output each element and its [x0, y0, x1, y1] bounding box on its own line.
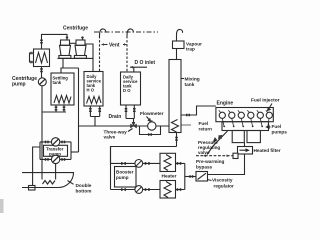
svg-text:Vent: Vent	[109, 43, 120, 49]
deck line (dash-dot)	[94, 31, 158, 33]
viscosity regulator	[196, 172, 208, 182]
vent gooseneck HO	[100, 29, 106, 36]
svg-text:Centrifuge: Centrifuge	[63, 26, 88, 32]
svg-text:H O: H O	[87, 88, 95, 93]
svg-text:Booster: Booster	[116, 170, 134, 175]
viscosity regulator label pointer	[208, 180, 212, 181]
centrifuge discharge to HO tank	[85, 44, 93, 72]
three-way valve label pointer	[128, 129, 133, 132]
svg-text:regulator: regulator	[214, 184, 234, 189]
heater bottom	[160, 181, 176, 199]
flowmeter	[148, 122, 156, 130]
HO tank outlets	[90, 106, 99, 126]
svg-text:D O inlet: D O inlet	[135, 60, 156, 66]
svg-text:Viscosity: Viscosity	[212, 178, 233, 183]
pressure valve label arrow	[213, 138, 217, 142]
vapour trap	[173, 41, 185, 49]
vent gooseneck DO	[127, 29, 133, 36]
DO inlet arrow	[130, 67, 147, 72]
mixing tank label pointer	[181, 78, 184, 80]
vent label arrows	[102, 44, 127, 46]
transfer pump circles	[51, 138, 59, 146]
svg-text:Drain: Drain	[109, 114, 122, 120]
transfer pump loop	[40, 142, 71, 160]
centrifuge pump suction line to double bottom	[41, 86, 43, 180]
svg-text:Engine: Engine	[217, 101, 234, 107]
stub on centrifuge 2	[82, 37, 84, 41]
feed pipe to centrifuge	[42, 34, 68, 49]
svg-text:valve: valve	[198, 150, 210, 155]
svg-text:pumps: pumps	[272, 130, 288, 135]
settling tank fill line	[61, 68, 79, 73]
flowmeter bypass loop	[140, 126, 161, 135]
fuel return line into mixing tank	[181, 106, 216, 115]
centrifuge 1	[59, 40, 71, 58]
svg-text:Heater: Heater	[162, 174, 177, 180]
booster pump label box	[115, 167, 137, 188]
transfer pump riser	[78, 68, 80, 152]
svg-text:Pre-warming: Pre-warming	[196, 159, 225, 164]
pre-warming bypass line (dashed)	[196, 155, 233, 157]
pipe heater to centrifuge pump	[41, 67, 43, 78]
svg-text:pump: pump	[12, 82, 26, 88]
heated filter	[238, 147, 253, 155]
fuel injector label arrow	[268, 104, 272, 111]
valve below heater	[40, 69, 43, 72]
svg-text:return: return	[199, 127, 213, 132]
heated filter down pipe	[208, 154, 245, 175]
settling tank	[51, 73, 74, 105]
fuel pump manifold	[222, 122, 269, 131]
pipe to heated filter	[244, 143, 246, 147]
settling tank drain header	[42, 111, 67, 113]
mixing tank bottom outlet	[176, 133, 178, 147]
svg-text:valve: valve	[104, 135, 116, 140]
three-way valve	[131, 122, 137, 128]
pressure regulating valve	[207, 131, 228, 155]
booster pump loop	[110, 147, 112, 190]
flowmeter label pointer	[147, 117, 151, 122]
svg-text:trap: trap	[186, 47, 195, 52]
double bottom tank	[22, 173, 74, 188]
centrifuge 2	[74, 40, 86, 58]
svg-text:pump: pump	[116, 175, 129, 180]
heater top	[160, 153, 176, 171]
fuel pumps label arrow	[267, 126, 271, 128]
scan smudge bottom-left	[0, 199, 4, 213]
valves on booster lines	[122, 162, 181, 165]
engine	[216, 108, 273, 122]
svg-text:D O: D O	[123, 88, 131, 93]
transfer pump label box	[44, 145, 68, 156]
settling tank outlet 2	[63, 105, 65, 112]
fuel injectors (6)	[219, 112, 272, 118]
pipe between centrifuges	[70, 42, 77, 44]
svg-text:bottom: bottom	[76, 188, 92, 193]
svg-text:pump: pump	[49, 152, 61, 157]
DO tank	[121, 72, 141, 105]
transfer pump discharge	[71, 151, 79, 153]
centrifuge pump	[38, 78, 46, 86]
vent pipe HO tank (dashed)	[99, 36, 101, 72]
bypass valve box	[233, 153, 238, 158]
svg-text:Fuel: Fuel	[272, 124, 282, 129]
settling tank outlet 1	[55, 105, 57, 112]
viscosity regulator inlet	[185, 176, 196, 178]
mixing tank	[169, 60, 181, 133]
manifold down loops	[232, 131, 244, 143]
svg-text:bypass: bypass	[196, 164, 213, 169]
heater (centrifuge)	[34, 49, 50, 67]
DO tank outlets	[126, 105, 134, 123]
main suction line to three-way valve / flowmeter	[79, 125, 170, 127]
svg-text:Fuel: Fuel	[199, 121, 209, 126]
svg-text:Flowmeter: Flowmeter	[140, 111, 164, 116]
centrifuge baseline	[58, 57, 93, 59]
vent pipe DO tank (dashed)	[126, 36, 128, 72]
HO tank	[84, 72, 103, 107]
fuel return label pointer	[181, 124, 191, 126]
transfer pump valves	[46, 141, 65, 144]
svg-text:tank: tank	[185, 82, 195, 88]
svg-text:Heated filter: Heated filter	[254, 148, 281, 153]
suction drop from bottom pump	[55, 164, 57, 180]
vapour trap pipe and gooseneck	[177, 29, 183, 41]
heater bypass	[30, 53, 34, 62]
line to booster pump loop	[111, 147, 177, 164]
svg-text:Mixing: Mixing	[185, 77, 200, 83]
booster pump circles	[135, 160, 143, 168]
valve on centrifuge feed	[40, 40, 43, 43]
double bottom label pointer	[68, 181, 74, 185]
strum box	[29, 186, 36, 191]
heating coil in double bottom	[43, 181, 56, 185]
svg-text:Double: Double	[76, 183, 92, 188]
pipe centrifuge1 base to settling fill line	[62, 58, 64, 68]
svg-text:Fuel injector: Fuel injector	[251, 98, 280, 104]
transfer suction from double bottom	[33, 147, 40, 186]
svg-text:tank: tank	[53, 80, 62, 85]
